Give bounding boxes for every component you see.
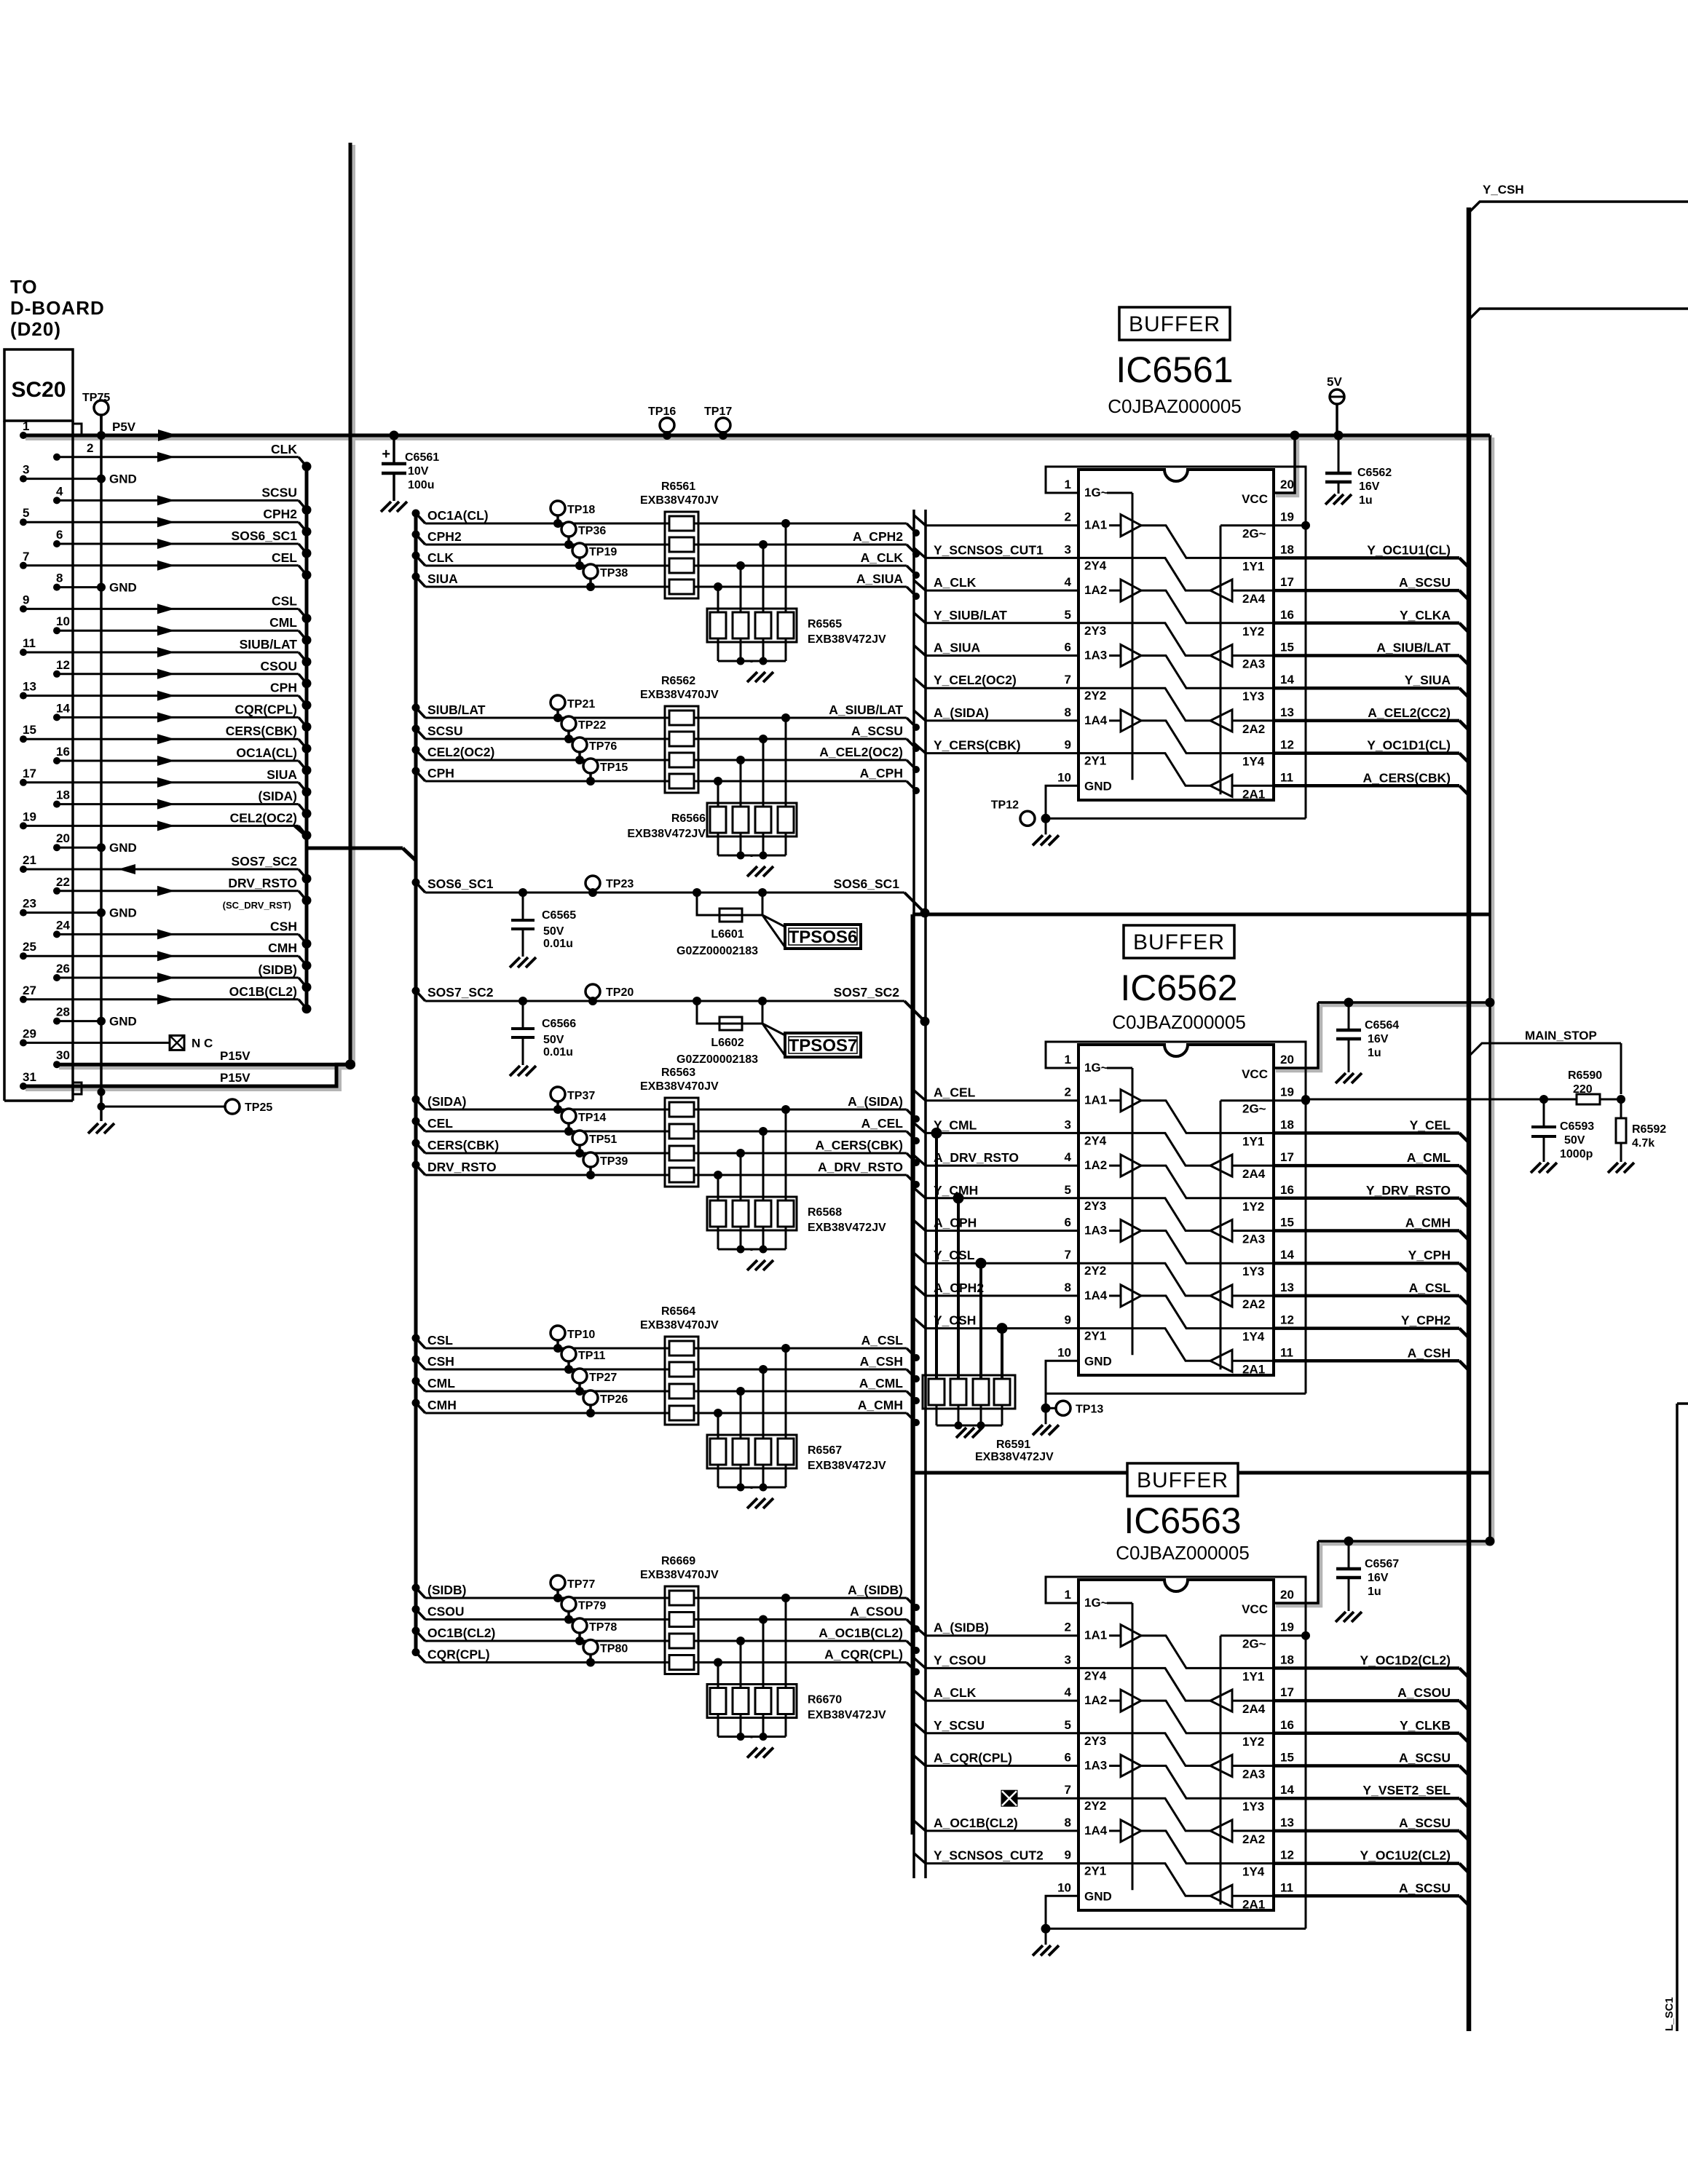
svg-text:2A4: 2A4	[1242, 1702, 1266, 1716]
wire A_SCSU output	[1274, 1816, 1469, 1840]
net exit second top right	[1469, 309, 1688, 320]
svg-text:P5V: P5V	[112, 420, 136, 434]
svg-text:L6602: L6602	[711, 1037, 744, 1049]
wire A_CQR(CPL) to IC	[914, 1751, 1078, 1766]
svg-text:220: 220	[1573, 1083, 1593, 1096]
svg-text:TP25: TP25	[245, 1101, 272, 1114]
svg-text:2G~: 2G~	[1242, 1102, 1266, 1116]
svg-text:GND: GND	[109, 581, 137, 595]
pin 17	[1280, 1150, 1294, 1164]
wire A_DRV_RSTO to IC	[914, 1150, 1078, 1166]
svg-text:C6562: C6562	[1357, 467, 1392, 479]
pin 10 GND	[1057, 770, 1112, 793]
svg-text:15: 15	[1280, 641, 1294, 654]
svg-text:7: 7	[1065, 1248, 1071, 1262]
wire Y_OC1D1(CL) output	[1274, 738, 1469, 763]
svg-text:13: 13	[1280, 1816, 1294, 1829]
svg-text:A_CEL2(CC2): A_CEL2(CC2)	[1368, 705, 1451, 720]
wire SOS6_SC1	[412, 877, 930, 918]
wire Y_CLKA output	[1274, 608, 1469, 633]
NC pin 29	[20, 1026, 213, 1050]
connector L_SC1 partial	[1663, 1404, 1688, 2031]
svg-text:EXB38V470JV: EXB38V470JV	[640, 1569, 719, 1581]
pin 6 1A3	[1065, 1216, 1108, 1238]
svg-text:4: 4	[56, 484, 63, 498]
test point TP80	[583, 1640, 628, 1667]
svg-text:10: 10	[1057, 1880, 1071, 1894]
bus B2 middle distribution bundle	[414, 514, 418, 1653]
enable tie loop wire	[1041, 1042, 1311, 1413]
svg-text:TPSOS7: TPSOS7	[789, 1036, 858, 1056]
svg-text:11: 11	[1280, 1880, 1293, 1894]
ground at IC	[1033, 818, 1059, 845]
svg-text:50V: 50V	[1564, 1134, 1585, 1147]
resistor network R6591	[923, 1128, 1054, 1463]
svg-text:20: 20	[1280, 1053, 1294, 1067]
svg-text:EXB38V472JV: EXB38V472JV	[808, 1222, 886, 1234]
svg-text:TP22: TP22	[578, 719, 606, 732]
wire CML pin 10	[53, 614, 312, 645]
test point TP20	[585, 984, 634, 1005]
svg-text:1Y2: 1Y2	[1242, 1200, 1264, 1214]
wire Y_CSL to IC	[914, 1248, 1078, 1263]
svg-text:16: 16	[1280, 1183, 1294, 1197]
wire A_CEL to IC	[914, 1085, 1078, 1101]
svg-text:TP17: TP17	[704, 405, 732, 418]
wire A_SCSU output	[1274, 575, 1469, 600]
svg-text:EXB38V472JV: EXB38V472JV	[808, 1709, 886, 1722]
svg-text:C6564: C6564	[1365, 1019, 1399, 1032]
wire P15V pin 30	[53, 1048, 355, 1069]
pin 12	[1280, 1313, 1294, 1327]
svg-text:1G~: 1G~	[1084, 486, 1108, 499]
svg-text:C0JBAZ000005: C0JBAZ000005	[1116, 1542, 1250, 1564]
wire Y_CMH to IC	[914, 1183, 1078, 1198]
BUFFER label box	[1124, 925, 1234, 958]
svg-text:18: 18	[56, 788, 70, 802]
pin 3 2Y4	[1065, 1653, 1107, 1682]
net MAIN_STOP	[1469, 1029, 1621, 1094]
test point TP23	[585, 876, 634, 897]
pin 12	[1280, 1848, 1294, 1862]
callout TPSOS7	[762, 1024, 861, 1057]
svg-text:9: 9	[23, 593, 29, 606]
svg-text:D-BOARD: D-BOARD	[10, 297, 105, 319]
svg-text:2Y2: 2Y2	[1084, 1799, 1106, 1813]
svg-text:28: 28	[56, 1005, 70, 1019]
svg-text:TP26: TP26	[600, 1393, 628, 1406]
svg-text:8: 8	[1065, 705, 1071, 719]
svg-text:18: 18	[1280, 1117, 1294, 1131]
resistor network R6565 pulldown	[707, 523, 886, 682]
svg-text:A_(SIDB): A_(SIDB)	[848, 1583, 903, 1597]
svg-text:CSOU: CSOU	[260, 659, 297, 673]
wire GND pin 3	[20, 463, 137, 486]
svg-text:2Y4: 2Y4	[1084, 1669, 1107, 1682]
svg-text:A_(SIDB): A_(SIDB)	[934, 1621, 989, 1635]
svg-text:SIUB/LAT: SIUB/LAT	[427, 703, 486, 717]
wire A_CSOU output	[1274, 1685, 1469, 1710]
test point TP15	[583, 759, 628, 786]
svg-text:2A3: 2A3	[1242, 1233, 1265, 1246]
wire CPH2	[412, 529, 920, 558]
svg-text:R6592: R6592	[1632, 1123, 1666, 1136]
svg-text:P15V: P15V	[220, 1071, 251, 1085]
wire OC1B(CL2)	[412, 1626, 920, 1654]
svg-text:R6563: R6563	[661, 1067, 695, 1079]
svg-text:20: 20	[1280, 478, 1294, 491]
svg-text:A_CML: A_CML	[859, 1376, 904, 1390]
capacitor C6561	[381, 431, 439, 513]
pin 18	[1280, 1653, 1294, 1666]
pin 18	[1280, 542, 1294, 556]
svg-text:6: 6	[1065, 1751, 1071, 1765]
wire A_OC1B(CL2) to IC	[914, 1816, 1078, 1831]
wire SOS6_SC1 pin 6	[53, 528, 312, 558]
svg-text:2Y3: 2Y3	[1084, 624, 1106, 638]
pin 6 1A3	[1065, 1751, 1108, 1773]
svg-text:R6562: R6562	[661, 675, 695, 687]
svg-text:Y_SCNSOS_CUT2: Y_SCNSOS_CUT2	[934, 1848, 1044, 1863]
svg-text:14: 14	[1280, 1783, 1294, 1797]
svg-text:21: 21	[23, 853, 36, 867]
pin 2 1A1	[1065, 1085, 1108, 1107]
vertical VCC feed line right	[1488, 435, 1491, 1541]
svg-text:CML: CML	[269, 615, 297, 630]
thick left box line	[911, 914, 915, 1835]
svg-text:CEL: CEL	[272, 550, 297, 565]
svg-text:100u: 100u	[408, 479, 434, 491]
wire GND pin 28	[53, 1005, 137, 1029]
svg-text:A_CSOU: A_CSOU	[1397, 1685, 1451, 1700]
svg-text:R6590: R6590	[1568, 1069, 1602, 1082]
wire SIUA	[412, 571, 920, 600]
svg-text:13: 13	[1280, 1281, 1294, 1294]
wire CSOU pin 12	[53, 658, 312, 689]
svg-text:IC6561: IC6561	[1116, 349, 1233, 390]
svg-text:TP21: TP21	[567, 698, 595, 711]
pin 4 1A2	[1065, 1685, 1108, 1707]
wire Y_CPH2 output	[1274, 1313, 1469, 1338]
capacitor C6593	[1531, 1099, 1594, 1173]
svg-text:C0JBAZ000005: C0JBAZ000005	[1112, 1011, 1246, 1033]
svg-text:0.01u: 0.01u	[543, 1046, 573, 1059]
svg-text:A_DRV_RSTO: A_DRV_RSTO	[818, 1160, 903, 1174]
IC name IC6562	[1112, 968, 1246, 1033]
ground rail at connector	[100, 408, 103, 1121]
wire OC1A(CL) pin 16	[53, 745, 312, 775]
svg-text:4.7k: 4.7k	[1632, 1137, 1655, 1150]
svg-text:3: 3	[23, 463, 29, 477]
svg-text:24: 24	[56, 918, 70, 932]
svg-text:1: 1	[1065, 478, 1071, 491]
svg-text:SOS7_SC2: SOS7_SC2	[834, 985, 900, 1000]
svg-text:1A2: 1A2	[1084, 1693, 1107, 1707]
svg-text:5: 5	[23, 506, 29, 520]
svg-text:7: 7	[23, 550, 29, 563]
svg-text:17: 17	[1280, 575, 1294, 589]
wire SIUA pin 17	[20, 767, 312, 797]
pin 20	[1280, 1053, 1294, 1067]
svg-text:P15V: P15V	[220, 1049, 251, 1063]
IC name IC6563	[1116, 1500, 1250, 1564]
svg-text:4: 4	[1065, 1685, 1072, 1699]
svg-text:A_CMH: A_CMH	[1405, 1216, 1451, 1230]
svg-text:TP51: TP51	[589, 1133, 617, 1146]
test point TP17	[704, 405, 732, 440]
bus B1 connector signal bundle	[305, 467, 309, 1012]
resistor R6592 4.7k	[1608, 1099, 1666, 1173]
buffer triangles internal	[1078, 1603, 1274, 1907]
svg-text:TP79: TP79	[578, 1600, 606, 1613]
svg-text:TP16: TP16	[648, 405, 676, 418]
svg-text:1Y3: 1Y3	[1242, 1800, 1264, 1813]
wire CEL2(OC2)	[412, 745, 920, 773]
svg-text:15: 15	[1280, 1751, 1294, 1765]
svg-text:A_SIUA: A_SIUA	[856, 571, 904, 586]
resistor network R6561 series	[640, 480, 719, 598]
svg-text:29: 29	[23, 1026, 36, 1040]
test point TP12	[991, 799, 1035, 826]
wire CSL pin 9	[20, 593, 312, 623]
test point TP18	[551, 501, 595, 528]
svg-text:17: 17	[1280, 1685, 1294, 1699]
wire A_CPH to IC	[914, 1216, 1078, 1231]
svg-text:2Y1: 2Y1	[1084, 754, 1106, 768]
wire Y_CLKB output	[1274, 1718, 1469, 1743]
test point TP79	[561, 1597, 606, 1624]
svg-text:CLK: CLK	[427, 550, 454, 565]
pin 1 1G~	[1065, 1588, 1108, 1610]
svg-text:(SIDB): (SIDB)	[427, 1583, 466, 1597]
svg-text:CSH: CSH	[270, 919, 297, 933]
test point TP39	[583, 1152, 628, 1179]
wire Y_SIUB/LAT to IC	[914, 608, 1078, 623]
svg-text:12: 12	[1280, 738, 1294, 752]
wire CML	[412, 1376, 920, 1404]
wire (SIDB)	[412, 1583, 920, 1611]
svg-text:6: 6	[1065, 1216, 1071, 1230]
svg-text:TP18: TP18	[567, 504, 595, 516]
svg-text:17: 17	[1280, 1150, 1294, 1164]
svg-text:(SIDB): (SIDB)	[259, 962, 297, 977]
ground at IC	[1033, 1408, 1059, 1435]
svg-text:1A4: 1A4	[1084, 1824, 1108, 1837]
svg-text:EXB38V470JV: EXB38V470JV	[640, 1319, 719, 1332]
svg-text:2A1: 2A1	[1242, 1362, 1265, 1376]
enable tie loop wire	[1041, 1577, 1311, 1934]
svg-text:6: 6	[56, 528, 63, 542]
svg-text:IC6563: IC6563	[1124, 1500, 1241, 1541]
pin 5 2Y3	[1065, 608, 1107, 638]
test point TP10	[551, 1326, 595, 1353]
wire CSL	[412, 1333, 920, 1361]
svg-text:20: 20	[56, 831, 70, 845]
svg-text:9: 9	[1065, 1313, 1071, 1327]
wire A_CEL2(CC2) output	[1274, 705, 1469, 730]
svg-text:CERS(CBK): CERS(CBK)	[427, 1138, 499, 1152]
pin 9 2Y1	[1065, 738, 1107, 768]
svg-text:Y_SIUA: Y_SIUA	[1405, 673, 1451, 687]
wire CQR(CPL) pin 14	[53, 701, 312, 732]
svg-text:14: 14	[1280, 673, 1294, 687]
svg-text:SC20: SC20	[11, 378, 66, 402]
svg-text:SIUA: SIUA	[267, 767, 297, 782]
svg-text:TP78: TP78	[589, 1621, 617, 1634]
connector SC20 to D-board	[4, 276, 105, 1101]
pin 11	[1280, 1345, 1293, 1359]
test point TP21	[551, 695, 595, 722]
svg-text:A_CSL: A_CSL	[861, 1333, 904, 1348]
svg-text:1A3: 1A3	[1084, 1224, 1107, 1238]
pin 12	[1280, 738, 1294, 752]
svg-text:11: 11	[23, 636, 36, 650]
svg-text:A_OC1B(CL2): A_OC1B(CL2)	[819, 1626, 903, 1640]
wire CEL pin 7	[20, 550, 312, 580]
svg-text:1: 1	[1065, 1053, 1071, 1067]
wire Y_CEL output	[1274, 1117, 1469, 1142]
svg-text:A_(SIDA): A_(SIDA)	[934, 705, 989, 720]
svg-text:1A2: 1A2	[1084, 583, 1107, 597]
pin 6 1A3	[1065, 641, 1108, 662]
svg-text:GND: GND	[1084, 1889, 1112, 1903]
svg-text:2A4: 2A4	[1242, 592, 1266, 606]
svg-text:3: 3	[1065, 1117, 1071, 1131]
test point TP14	[561, 1109, 606, 1136]
svg-text:2G~: 2G~	[1242, 527, 1266, 541]
svg-text:R6670: R6670	[808, 1694, 842, 1706]
svg-text:1u: 1u	[1359, 494, 1373, 507]
pin 13	[1280, 705, 1294, 719]
jumper L6602	[677, 997, 767, 1066]
wire Y_SCNSOS_CUT2 to IC	[914, 1848, 1078, 1864]
svg-text:SOS6_SC1: SOS6_SC1	[427, 877, 494, 891]
resistor network R6563 series	[640, 1067, 719, 1187]
pin 14	[1280, 1783, 1294, 1797]
svg-text:A_CLK: A_CLK	[934, 575, 977, 590]
svg-text:GND: GND	[109, 841, 137, 855]
pin 18	[1280, 1117, 1294, 1131]
svg-text:A_CEL: A_CEL	[861, 1116, 904, 1131]
svg-text:1u: 1u	[1368, 1586, 1381, 1598]
svg-text:VCC: VCC	[1242, 1602, 1268, 1616]
svg-text:TP10: TP10	[567, 1329, 595, 1341]
svg-text:EXB38V470JV: EXB38V470JV	[640, 494, 719, 507]
svg-text:1Y1: 1Y1	[1242, 559, 1264, 573]
wire A_CSH output	[1274, 1345, 1469, 1370]
svg-text:A_CERS(CBK): A_CERS(CBK)	[1362, 770, 1451, 785]
svg-text:1A4: 1A4	[1084, 1289, 1108, 1302]
svg-text:TP36: TP36	[578, 525, 606, 537]
svg-text:R6566: R6566	[671, 812, 706, 825]
svg-text:1Y3: 1Y3	[1242, 689, 1264, 703]
svg-text:CQR(CPL): CQR(CPL)	[234, 702, 297, 716]
buffer triangles internal	[1078, 1068, 1274, 1372]
wire pin2 to IC	[914, 515, 1078, 526]
svg-text:A_CERS(CBK): A_CERS(CBK)	[815, 1138, 903, 1152]
svg-text:GND: GND	[109, 472, 137, 486]
svg-text:SOS6_SC1: SOS6_SC1	[232, 529, 298, 543]
pin 8 1A4	[1065, 705, 1108, 727]
svg-text:R6568: R6568	[808, 1206, 842, 1219]
svg-text:Y_OC1U1(CL): Y_OC1U1(CL)	[1367, 542, 1451, 557]
svg-text:50V: 50V	[543, 925, 564, 938]
svg-text:CPH: CPH	[270, 681, 297, 695]
wire P15V pin 31	[20, 1064, 348, 1090]
wire Y_SCNSOS_CUT1 to IC	[914, 542, 1078, 558]
pin 13	[1280, 1281, 1294, 1294]
svg-text:(SIDA): (SIDA)	[427, 1094, 466, 1109]
svg-text:1G~: 1G~	[1084, 1061, 1108, 1075]
jumper L6601	[677, 888, 767, 957]
svg-text:MAIN_STOP: MAIN_STOP	[1525, 1029, 1597, 1042]
svg-text:GND: GND	[109, 1015, 137, 1029]
pin 3 2Y4	[1065, 542, 1107, 572]
pin 4 1A2	[1065, 575, 1108, 597]
pin 1 1G~	[1065, 1053, 1108, 1075]
svg-text:CLK: CLK	[271, 442, 297, 456]
svg-text:2Y3: 2Y3	[1084, 1199, 1106, 1213]
svg-text:9: 9	[1065, 1848, 1071, 1862]
wire Y_CPH output	[1274, 1248, 1469, 1273]
svg-text:2Y3: 2Y3	[1084, 1734, 1106, 1748]
svg-text:A_CLK: A_CLK	[861, 550, 904, 565]
svg-text:1Y1: 1Y1	[1242, 1669, 1264, 1683]
svg-text:2A3: 2A3	[1242, 1768, 1265, 1781]
svg-text:EXB38V472JV: EXB38V472JV	[808, 1460, 886, 1472]
svg-text:OC1A(CL): OC1A(CL)	[427, 508, 489, 523]
svg-text:TO: TO	[10, 276, 38, 298]
pin 9 2Y1	[1065, 1313, 1107, 1343]
svg-text:(SC_DRV_RST): (SC_DRV_RST)	[223, 900, 291, 911]
svg-text:CEL2(OC2): CEL2(OC2)	[230, 810, 297, 825]
wire CPH2 pin 5	[20, 506, 312, 537]
wire CSOU	[412, 1605, 920, 1633]
resistor network R6564 series	[640, 1305, 719, 1425]
svg-text:TP37: TP37	[567, 1090, 595, 1102]
wire Y_CML to IC	[914, 1117, 1078, 1133]
pin 7 2Y2	[1065, 673, 1107, 703]
op-amp buffer IC IC6561 body	[1078, 470, 1274, 800]
svg-text:SIUA: SIUA	[427, 571, 458, 586]
buffer triangles internal	[1078, 493, 1274, 796]
wire CEL	[412, 1116, 920, 1144]
svg-text:N C: N C	[192, 1036, 213, 1050]
svg-text:Y_SCNSOS_CUT1: Y_SCNSOS_CUT1	[934, 542, 1044, 557]
svg-text:1Y2: 1Y2	[1242, 1735, 1264, 1749]
svg-text:Y_CEL: Y_CEL	[1410, 1117, 1451, 1132]
svg-text:18: 18	[1280, 542, 1294, 556]
svg-text:TP14: TP14	[578, 1112, 606, 1124]
wire Y_CSOU to IC	[914, 1653, 1078, 1668]
svg-text:TP76: TP76	[589, 740, 617, 753]
svg-text:CML: CML	[427, 1376, 455, 1390]
svg-text:C6565: C6565	[542, 909, 576, 922]
svg-text:A_CSOU: A_CSOU	[850, 1605, 903, 1619]
svg-text:(SIDA): (SIDA)	[259, 789, 297, 804]
wire A_CML output	[1274, 1150, 1469, 1175]
BUFFER label box	[1127, 1463, 1238, 1496]
svg-text:2Y1: 2Y1	[1084, 1329, 1106, 1343]
svg-text:8: 8	[1065, 1816, 1071, 1829]
wire DRV_RSTO	[412, 1160, 920, 1188]
test point TP22	[561, 716, 606, 743]
svg-text:Y_CSH: Y_CSH	[1483, 183, 1524, 197]
test point TP76	[572, 737, 617, 764]
pin 7 2Y2	[1065, 1248, 1107, 1278]
svg-text:L6601: L6601	[711, 928, 744, 941]
svg-text:TP19: TP19	[589, 546, 617, 558]
